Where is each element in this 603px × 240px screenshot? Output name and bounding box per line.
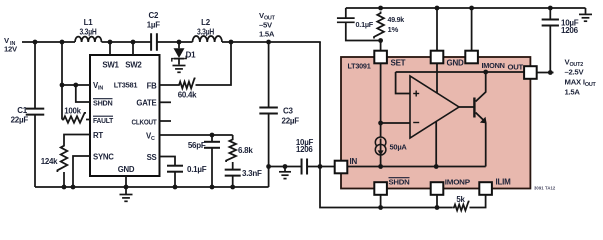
junction IN node xyxy=(318,164,323,169)
junction D1 xyxy=(177,40,182,45)
pin ILIM xyxy=(479,182,492,195)
svg-text:C1: C1 xyxy=(17,106,28,115)
svg-text:0.1µF: 0.1µF xyxy=(356,20,374,29)
pin CLKOUT stub xyxy=(160,120,172,122)
wire SET internal lower xyxy=(380,155,382,166)
svg-text:SS: SS xyxy=(147,153,157,162)
pin IN xyxy=(335,161,348,174)
wire bottom rail stage1 xyxy=(35,186,269,188)
pin GND-2 xyxy=(431,51,444,64)
wire IMONP stub xyxy=(436,195,438,208)
junction 3.3nF bottom xyxy=(230,185,235,190)
resistor 5k xyxy=(453,202,469,211)
svg-text:GND: GND xyxy=(118,165,135,174)
pin SW1 stub xyxy=(109,42,111,55)
svg-text:1206: 1206 xyxy=(561,26,579,35)
regulator U2 LT3091 body xyxy=(341,57,530,189)
junction 49.9k top xyxy=(378,6,383,11)
svg-text:1%: 1% xyxy=(388,25,399,34)
svg-text:GATE: GATE xyxy=(136,99,156,108)
svg-text:6.8k: 6.8k xyxy=(238,146,253,155)
svg-text:MAX IOUT: MAX IOUT xyxy=(565,78,597,89)
wire VC xyxy=(160,134,233,136)
capacitor C1 branch xyxy=(34,42,36,109)
junction 56pF bottom xyxy=(210,185,215,190)
junction FB riser xyxy=(229,40,234,45)
junction SW1 xyxy=(108,40,113,45)
resistor 60.4k xyxy=(178,78,196,88)
wire top input rail xyxy=(22,41,75,43)
wire minus input xyxy=(381,122,410,124)
svg-text:CLKOUT: CLKOUT xyxy=(132,117,157,126)
op-amp plus sign xyxy=(413,93,419,95)
wire L2 to corner xyxy=(222,41,321,43)
svg-text:1.5A: 1.5A xyxy=(565,88,581,97)
svg-text:SHDN: SHDN xyxy=(93,98,113,107)
junction IMONP bottom xyxy=(435,205,440,210)
op-amp minus sign xyxy=(413,122,419,124)
wire top gnd rail xyxy=(346,7,586,9)
svg-text:60.4k: 60.4k xyxy=(178,91,197,100)
ground top right xyxy=(585,8,587,14)
svg-text:22µF: 22µF xyxy=(11,116,29,125)
junction VIN branch top xyxy=(60,40,65,45)
svg-text:IMONP: IMONP xyxy=(445,177,470,186)
wire IMONN riser xyxy=(471,8,473,51)
ground below U1 xyxy=(125,187,127,194)
svg-text:GND: GND xyxy=(447,58,465,67)
wire SS cap bottom xyxy=(174,172,176,187)
svg-text:LT3091: LT3091 xyxy=(348,62,372,71)
wire FB riser xyxy=(196,42,232,85)
capacitor 0.1uF-SET branch xyxy=(345,8,347,18)
capacitor 56pF branch xyxy=(211,135,213,142)
svg-text:D1: D1 xyxy=(186,51,197,60)
wire GND stub xyxy=(125,176,127,187)
inductor L1 xyxy=(75,37,102,42)
junction VOUT xyxy=(266,40,271,45)
inductor L2 xyxy=(193,36,223,42)
resistor 49.9k xyxy=(374,12,384,39)
capacitor C3 branch xyxy=(268,42,270,108)
wire RT xyxy=(64,135,90,145)
capacitor 0.1uF-SET xyxy=(337,17,355,19)
pin SHDN-2 xyxy=(374,182,387,195)
svg-text:L2: L2 xyxy=(201,18,211,27)
junction C1 top xyxy=(33,40,38,45)
junction OUT node xyxy=(548,70,553,75)
pin SET xyxy=(374,51,387,64)
junction minus input xyxy=(378,121,383,126)
wire GND riser xyxy=(436,8,438,51)
junction collector out xyxy=(483,70,488,75)
capacitor 10uF-out branch xyxy=(549,8,551,20)
junction GND riser top xyxy=(435,6,440,11)
wire ILIM stub xyxy=(478,195,486,208)
capacitor 3.3nF branch xyxy=(232,162,234,170)
capacitor 10uF-out xyxy=(542,19,559,21)
junction opamp supply bottom xyxy=(434,164,439,169)
svg-text:3.3nF: 3.3nF xyxy=(242,169,262,178)
svg-text:1.5A: 1.5A xyxy=(259,30,275,39)
svg-text:SET: SET xyxy=(391,58,406,67)
junction SHDN riser xyxy=(73,83,78,88)
ground on IN wire xyxy=(284,167,286,172)
op-amp U2A xyxy=(410,76,459,138)
svg-text:LT3581: LT3581 xyxy=(114,81,138,90)
junction 124k bottom xyxy=(62,185,67,190)
junction 10uF-out top xyxy=(548,6,553,11)
svg-text:OUT: OUT xyxy=(508,62,524,71)
junction 56pF top xyxy=(210,133,215,138)
svg-text:5k: 5k xyxy=(456,195,465,204)
wire to IN xyxy=(269,166,302,168)
wire C2 to L2 xyxy=(157,41,193,43)
svg-text:–5V: –5V xyxy=(259,20,273,29)
pin IMONN xyxy=(465,51,478,64)
diode D1 (Schottky) xyxy=(178,42,180,48)
wire VOUT drop xyxy=(319,42,321,167)
capacitor C1 xyxy=(26,108,45,110)
svg-text:1µF: 1µF xyxy=(147,20,160,29)
svg-text:SHDN: SHDN xyxy=(389,177,411,186)
svg-text:100k: 100k xyxy=(64,107,81,116)
svg-text:3.3µH: 3.3µH xyxy=(80,28,97,37)
junction SHDN bottom xyxy=(378,205,383,210)
wire IN rail internal xyxy=(347,166,485,168)
wire 124k to rail xyxy=(63,172,65,187)
wire SS xyxy=(160,157,176,166)
svg-text:50µA: 50µA xyxy=(390,143,408,152)
capacitor 0.1uF-SS xyxy=(167,165,183,167)
junction SW2 xyxy=(131,40,136,45)
svg-text:C3: C3 xyxy=(283,106,294,115)
wire SHDN drop xyxy=(320,167,453,208)
svg-text:C2: C2 xyxy=(149,11,159,20)
junction C3 mid xyxy=(266,164,271,169)
svg-text:56pF: 56pF xyxy=(188,141,206,150)
svg-text:1206: 1206 xyxy=(296,145,313,154)
resistor 100k xyxy=(62,113,86,123)
junction SYNC bottom xyxy=(71,185,76,190)
junction input ground xyxy=(283,164,288,169)
svg-text:FAULT: FAULT xyxy=(93,116,113,125)
junction IMONN riser top xyxy=(469,6,474,11)
wire SYNC xyxy=(73,156,90,187)
IC U1 LT3581 body xyxy=(90,55,160,176)
pin OUT xyxy=(524,66,537,79)
svg-text:VOUT2: VOUT2 xyxy=(565,58,584,69)
current source 50uA xyxy=(375,137,386,148)
svg-text:SW2: SW2 xyxy=(125,60,142,69)
junction 50uA bottom xyxy=(378,164,383,169)
capacitor C2 xyxy=(150,33,152,51)
transistor Q1 pass xyxy=(459,106,474,108)
svg-text:3091 TA12: 3091 TA12 xyxy=(534,185,556,190)
resistor 6.8k xyxy=(232,135,234,138)
wire VIN branch vertical xyxy=(61,42,63,120)
pin GATE stub xyxy=(160,101,172,103)
svg-text:FB: FB xyxy=(147,81,158,90)
wire SHDN stub xyxy=(380,195,382,208)
junction SET node xyxy=(378,38,383,43)
pin IMONP xyxy=(431,182,444,195)
wire gnd to opamp top xyxy=(436,63,438,93)
wire SHDN riser xyxy=(76,85,90,102)
svg-text:IN: IN xyxy=(350,157,358,166)
junction VIN pin xyxy=(60,83,65,88)
capacitor 10uF-IN xyxy=(301,159,303,175)
svg-text:49.9k: 49.9k xyxy=(388,15,405,24)
svg-text:IMONN: IMONN xyxy=(482,61,506,70)
wire L1 to C2 xyxy=(102,41,152,43)
resistor 124k xyxy=(57,144,67,172)
capacitor 56pF xyxy=(204,141,220,143)
wire opamp bottom supply xyxy=(435,122,437,167)
svg-text:12V: 12V xyxy=(4,45,18,54)
svg-text:SW1: SW1 xyxy=(102,60,119,69)
svg-text:3.3µH: 3.3µH xyxy=(197,28,214,37)
wire 10uF to IN pin xyxy=(308,166,335,168)
wire VIN pin xyxy=(62,84,90,86)
wire out internal xyxy=(396,71,524,73)
svg-text:–2.5V: –2.5V xyxy=(565,68,585,77)
wire OUT xyxy=(537,72,554,74)
wire SET drop xyxy=(380,41,382,52)
svg-text:L1: L1 xyxy=(84,18,94,27)
svg-text:22µF: 22µF xyxy=(282,117,300,126)
capacitor 3.3nF xyxy=(225,169,241,171)
svg-text:RT: RT xyxy=(93,131,103,140)
capacitor C3 xyxy=(259,107,278,109)
wire SET internal xyxy=(380,63,382,137)
ground below D1 xyxy=(173,65,186,67)
pin SW2 stub xyxy=(132,42,134,55)
wire plus feedback xyxy=(396,72,410,94)
svg-text:124k: 124k xyxy=(41,157,58,166)
svg-text:0.1µF: 0.1µF xyxy=(187,165,207,174)
svg-text:ILIM: ILIM xyxy=(496,177,512,186)
svg-text:SYNC: SYNC xyxy=(93,152,114,161)
junction GND bottom xyxy=(124,185,129,190)
junction SS cap bottom xyxy=(173,185,178,190)
wire FB xyxy=(160,84,179,86)
